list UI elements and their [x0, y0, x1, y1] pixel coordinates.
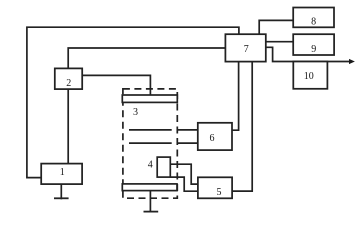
box 8: [293, 8, 334, 28]
svg-text:2: 2: [66, 78, 71, 89]
box 7: [225, 34, 265, 61]
wire box6 right to box7 bottom: [232, 62, 239, 131]
wire box2 bottom to box1 top: [67, 89, 69, 164]
middle grid line lower: [129, 142, 172, 144]
wire box7 right to box9 left: [266, 41, 293, 43]
wire box2 top to box7 left: [68, 48, 225, 68]
box 5: [198, 177, 232, 198]
wire box7 top to box8 left: [259, 20, 293, 34]
dashed chamber box 3: [123, 89, 177, 198]
wire box4 bottom to box5 left lower: [170, 177, 198, 191]
wire box7 right stepping down to output arrow: [266, 47, 351, 61]
bottom plate electrode: [122, 184, 177, 191]
ground under bottom plate: [149, 191, 151, 212]
box 9: [293, 34, 334, 55]
wire stub lower to box 6: [177, 142, 198, 144]
svg-text:9: 9: [311, 44, 316, 55]
box 10: [293, 62, 327, 89]
ground under box 1: [60, 184, 62, 199]
wire box2 right to top plate: [82, 75, 150, 95]
svg-text:5: 5: [217, 187, 222, 198]
middle grid line upper: [129, 129, 172, 131]
box 2: [55, 68, 82, 89]
svg-text:7: 7: [244, 44, 249, 55]
svg-text:1: 1: [60, 167, 65, 178]
wire box5 right to box7 bottom: [232, 62, 252, 192]
box 4: [157, 157, 170, 177]
box 6: [198, 123, 232, 150]
svg-text:8: 8: [311, 17, 316, 28]
wire outer loop: box1 left edge to box7 top: [27, 27, 239, 177]
svg-text:6: 6: [210, 133, 215, 144]
svg-text:10: 10: [304, 71, 314, 82]
svg-text:4: 4: [148, 160, 153, 171]
arrowhead: [349, 60, 354, 64]
wire box4 right to box5 left upper: [170, 164, 198, 184]
wire stub upper to box 6: [177, 129, 198, 131]
top plate electrode: [122, 95, 177, 102]
svg-text:3: 3: [133, 107, 138, 118]
box 1: [41, 164, 82, 185]
